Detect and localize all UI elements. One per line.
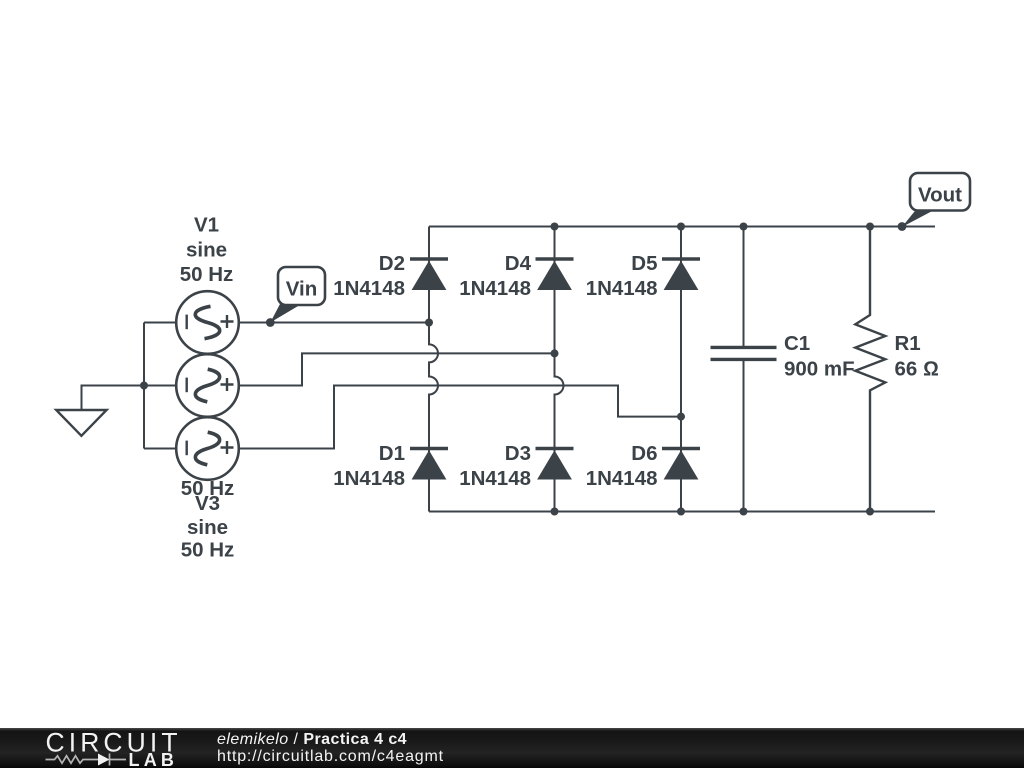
node flag Vin [270,267,325,323]
junction D2 anode / V1 [425,319,433,327]
svg-text:1N4148: 1N4148 [333,277,405,300]
wire top rail [429,226,935,228]
svg-text:V1: V1 [194,214,219,237]
capacitor C1 [711,227,777,512]
wire bridge column 1 with hops [429,227,438,512]
svg-text:sine: sine [187,516,228,539]
label V3 value [181,492,235,562]
voltage source V1 [176,291,239,354]
svg-text:66 Ω: 66 Ω [895,358,939,381]
label V1 value [180,214,234,287]
svg-text:D3: D3 [505,442,531,465]
label D2 [333,252,405,300]
diode D2 [410,259,448,290]
diode D6 [662,449,700,480]
svg-text:50 Hz: 50 Hz [180,263,234,286]
svg-text:V3: V3 [195,492,220,515]
wire V1 negative terminal [144,322,177,324]
svg-text:sine: sine [186,239,227,262]
wire V3 negative terminal [144,448,177,450]
diode D3 [536,449,574,480]
svg-text:D1: D1 [379,442,405,465]
wire V2 negative terminal [144,385,177,387]
node flag Vout [902,173,970,227]
label V2 value (only last line visible) [181,477,235,500]
junction node Vout tap [898,222,907,231]
svg-text:900 mF: 900 mF [784,358,855,381]
diode D5 [662,259,700,290]
junction dots top rail [551,223,875,231]
svg-text:1N4148: 1N4148 [586,467,658,490]
junction D4 anode / V2 [551,349,559,357]
label D4 [459,252,531,300]
svg-text:1N4148: 1N4148 [333,467,405,490]
CircuitLab logo [0,728,200,768]
label D1 [333,442,405,490]
svg-text:C1: C1 [784,332,810,355]
diode D1 [410,449,448,480]
wire bottom rail [429,511,935,513]
footer title text [217,732,444,765]
resistor R1 [855,227,885,512]
svg-text:1N4148: 1N4148 [459,277,531,300]
junction node Vin tap [266,318,275,327]
label C1 [784,332,855,381]
svg-text:D6: D6 [631,442,657,465]
wire V2 plus to D3/D4 junction [239,353,555,385]
label D5 [586,252,658,300]
junction ground node [140,382,148,390]
footer bar [0,728,1024,768]
svg-text:R1: R1 [895,332,921,355]
wire left bus vertical [143,323,145,449]
ground [56,410,106,436]
label D3 [459,442,531,490]
svg-text:50 Hz: 50 Hz [181,539,235,562]
svg-text:LAB: LAB [129,750,179,768]
wire node Vin: V1 plus to bridge column 1 [239,322,430,324]
voltage source V2 [176,354,239,417]
label R1 [895,332,939,381]
svg-text:1N4148: 1N4148 [459,467,531,490]
wire ground lead [82,386,145,411]
wire bridge column 2 with hop [555,227,564,512]
wire bridge column 3 [680,227,682,512]
svg-text:1N4148: 1N4148 [586,277,658,300]
svg-text:D2: D2 [379,252,405,275]
label D6 [586,442,658,490]
svg-text:Vout: Vout [918,184,962,207]
diode D4 [536,259,574,290]
svg-text:D5: D5 [631,252,657,275]
voltage source V3 [176,417,239,480]
wire V3 plus to D5/D6 junction [239,386,682,449]
svg-text:Vin: Vin [286,278,318,301]
junction dots bottom rail [551,508,875,516]
junction D5 anode / V3 [677,413,685,421]
svg-text:D4: D4 [505,252,532,275]
